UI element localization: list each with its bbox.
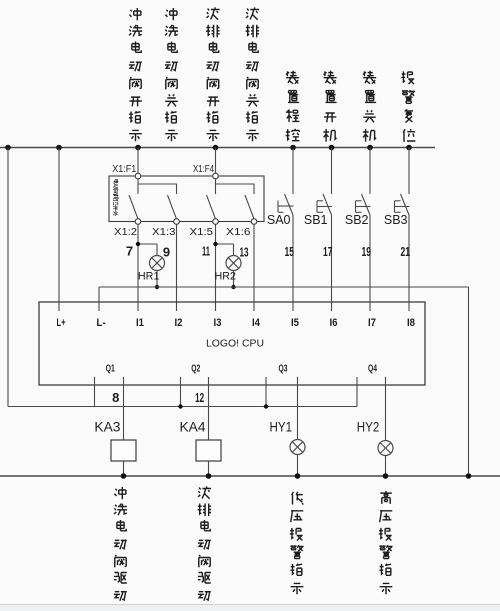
svg-text:15: 15 (285, 244, 295, 259)
svg-text:X1:6: X1:6 (226, 227, 251, 238)
svg-text:HY1: HY1 (270, 419, 293, 435)
svg-text:17: 17 (323, 244, 333, 259)
svg-text:I3: I3 (214, 317, 222, 329)
svg-text:21: 21 (401, 244, 411, 259)
svg-text:X1:5: X1:5 (190, 227, 214, 238)
svg-text:L-: L- (97, 317, 106, 329)
svg-text:Q2: Q2 (191, 364, 200, 375)
svg-text:7: 7 (126, 244, 133, 259)
svg-text:X1:F1: X1:F1 (112, 164, 136, 175)
svg-text:SB2: SB2 (345, 213, 369, 227)
svg-text:13: 13 (240, 245, 249, 260)
svg-text:11: 11 (202, 244, 210, 259)
svg-text:X1:3: X1:3 (152, 227, 176, 238)
svg-text:Q1: Q1 (106, 364, 115, 375)
svg-text:I5: I5 (291, 317, 299, 329)
svg-text:X1:F4: X1:F4 (193, 164, 214, 175)
svg-text:L+: L+ (57, 317, 66, 329)
svg-text:SA0: SA0 (267, 213, 291, 227)
svg-text:8: 8 (112, 390, 119, 405)
svg-text:HR2: HR2 (214, 271, 236, 283)
svg-text:I6: I6 (330, 317, 338, 329)
svg-text:X1:2: X1:2 (114, 227, 137, 238)
svg-text:Q3: Q3 (278, 364, 287, 375)
svg-text:LOGO! CPU: LOGO! CPU (206, 339, 264, 350)
svg-text:I1: I1 (136, 317, 144, 329)
svg-text:I2: I2 (175, 317, 183, 329)
svg-text:I4: I4 (252, 317, 261, 329)
svg-text:SB1: SB1 (304, 213, 328, 227)
svg-text:I8: I8 (407, 317, 415, 329)
svg-text:19: 19 (362, 244, 372, 259)
svg-text:I7: I7 (368, 317, 376, 329)
svg-text:KA4: KA4 (180, 419, 206, 435)
svg-text:HR1: HR1 (138, 271, 160, 283)
svg-text:Q4: Q4 (368, 364, 377, 375)
svg-text:SB3: SB3 (384, 213, 408, 227)
svg-text:12: 12 (195, 390, 204, 405)
svg-text:9: 9 (163, 245, 170, 260)
svg-text:HY2: HY2 (357, 419, 380, 435)
svg-text:KA3: KA3 (94, 419, 120, 435)
